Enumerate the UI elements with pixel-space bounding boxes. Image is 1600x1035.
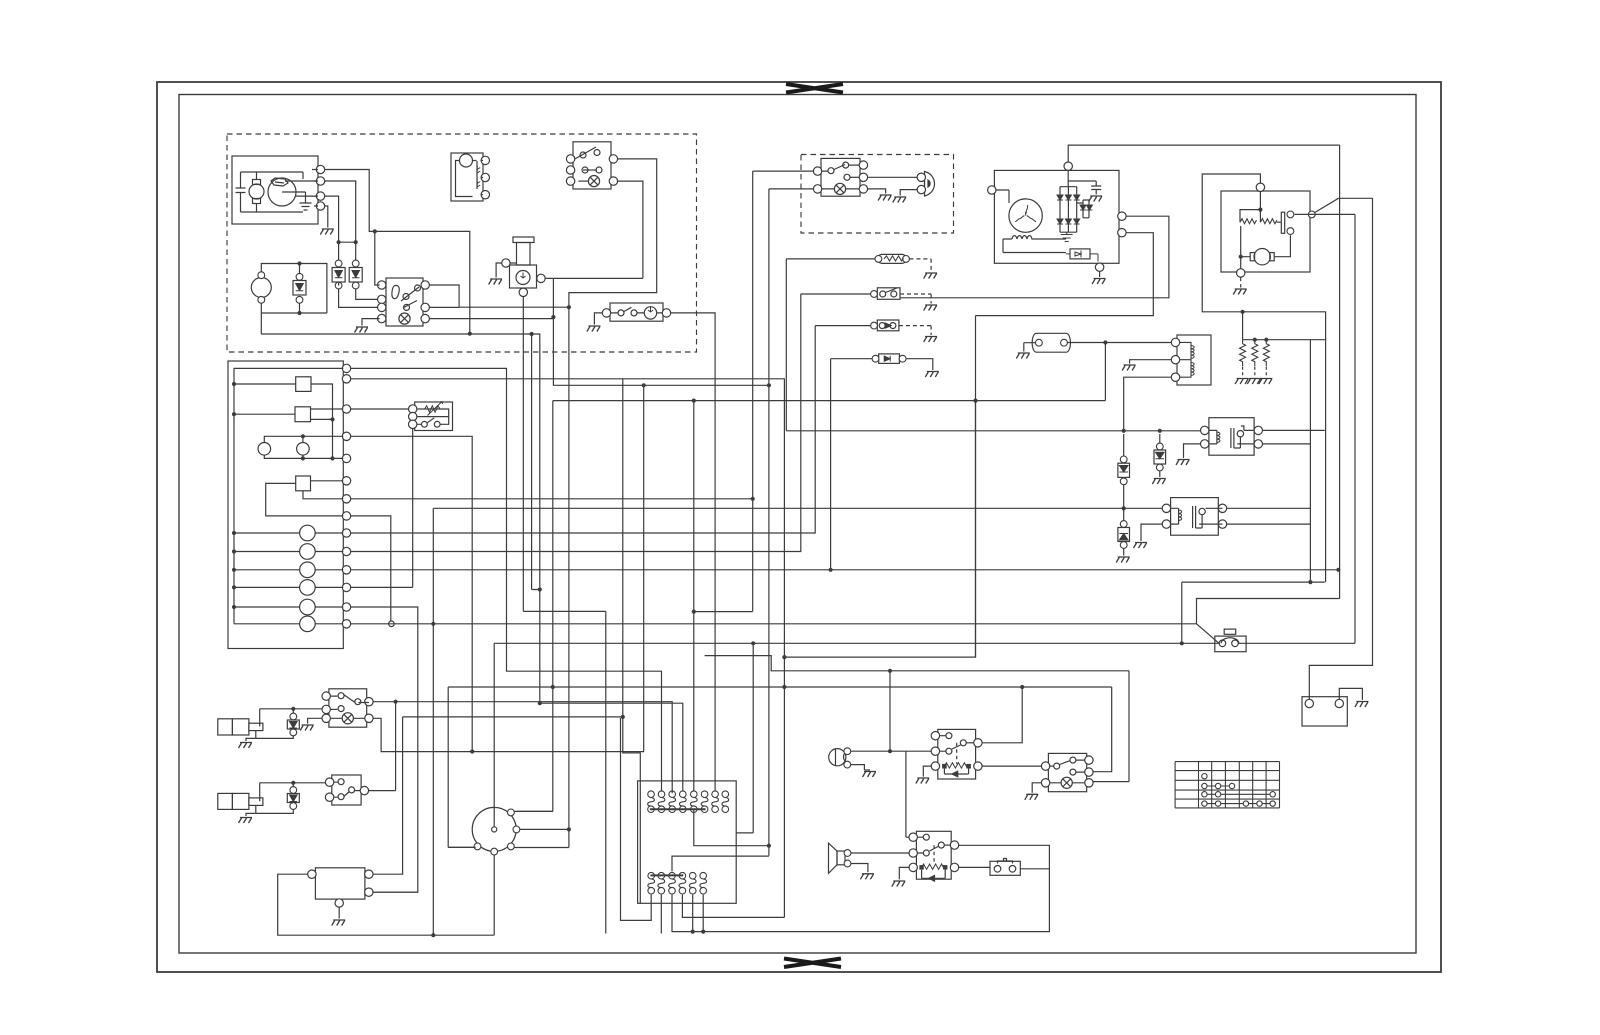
distributor SW wire bbox=[448, 846, 475, 848]
horn bbox=[829, 749, 846, 766]
row1 bottom drop from coil5 bbox=[694, 809, 769, 846]
wire D1 to switch lower terminal bbox=[339, 289, 380, 307]
wire D2 to switch mid terminal bbox=[356, 289, 380, 299]
wire cluster t409 to flasher bbox=[351, 408, 409, 410]
ground bbox=[924, 273, 938, 279]
transformer 2 bbox=[1171, 498, 1219, 536]
page border outer frame bbox=[157, 82, 1441, 972]
wire kill lamp to spark line bbox=[618, 181, 643, 278]
ground bbox=[924, 337, 938, 343]
wires C0 D0 loop bbox=[261, 264, 327, 335]
six indicator bulbs bbox=[300, 525, 316, 541]
wire flasher bottom down to t587 line bbox=[412, 429, 414, 588]
531.6 drop from 334 line bbox=[532, 334, 540, 590]
turn signal switch box bbox=[1048, 753, 1086, 791]
diode pack D0 bbox=[296, 273, 303, 280]
coil1 bottom loop bbox=[621, 718, 652, 920]
generator AC wire 1 bbox=[900, 216, 1169, 298]
generator AC wire 2 bbox=[976, 233, 1154, 657]
diode chain C bbox=[1120, 521, 1127, 528]
ignition resistor pack box bbox=[638, 781, 737, 903]
diode unit A bbox=[290, 713, 297, 720]
ground bbox=[924, 305, 938, 311]
400 line from corner to pickup, coil5 feed bbox=[553, 401, 1106, 792]
headlight bulb bbox=[925, 172, 935, 197]
671 line turn signal feed bbox=[705, 656, 1129, 782]
ground bbox=[860, 874, 874, 880]
ground bbox=[916, 778, 930, 784]
lower row top bar bbox=[651, 874, 684, 876]
battery positive feed bbox=[1309, 198, 1372, 699]
ground bbox=[1092, 279, 1106, 285]
page border inner frame bbox=[179, 95, 1416, 954]
top alignment bowtie bbox=[786, 84, 843, 93]
686.9 long line bbox=[448, 687, 1111, 847]
wire lampbox feed left-top from headlamp power vertical bbox=[753, 170, 814, 172]
wire alternator t2 bbox=[325, 181, 356, 263]
ground bbox=[925, 372, 939, 378]
wire cluster t436 down to horn line bbox=[351, 436, 473, 751]
alarm relay box bbox=[916, 831, 951, 879]
lamp square 2 bbox=[295, 407, 311, 422]
relay diode loop bbox=[944, 768, 968, 774]
battery bbox=[1302, 697, 1347, 726]
ground bbox=[587, 326, 601, 332]
wire bridge t2-t3 bbox=[339, 241, 356, 243]
distributor NE wire bbox=[514, 810, 553, 812]
375 line bbox=[623, 379, 641, 904]
wire kill right-top bbox=[569, 159, 657, 812]
lamp square 3 bbox=[296, 476, 311, 491]
starter relay assembly bbox=[1221, 191, 1310, 272]
CDI right-mid wire bbox=[373, 891, 418, 893]
generator box bbox=[994, 170, 1119, 263]
ground bbox=[1176, 460, 1190, 466]
transformer 1 bbox=[1209, 418, 1254, 456]
ground bbox=[332, 920, 346, 926]
wire HS lamp right to 553.6 bbox=[429, 318, 553, 320]
resistor pack coils row1 (8 coils) bbox=[648, 791, 729, 813]
twin bulbs bbox=[258, 443, 271, 456]
diode box in generator bbox=[1070, 249, 1090, 259]
flasher relay box bbox=[415, 402, 453, 431]
coil3 bottom loop long right bbox=[672, 845, 1049, 931]
coil4 bottom loop bbox=[682, 895, 784, 918]
coil bottom terminal wire bbox=[1124, 377, 1172, 431]
lamp square 1 bbox=[296, 377, 311, 392]
ground bbox=[1122, 365, 1136, 371]
row1 coil bar bbox=[650, 808, 706, 810]
alternator terminals bbox=[316, 165, 324, 173]
wire cluster t515 loop to bullet bbox=[351, 516, 391, 624]
dashed enclosure meter lamps area bbox=[801, 155, 954, 234]
716.9 line from 403.3 bbox=[403, 716, 623, 718]
lower row coil3 top riser bbox=[672, 856, 769, 871]
433 vertical from 508 line to 935 line bbox=[432, 508, 434, 935]
capacitor C bbox=[236, 172, 246, 212]
starter motor bbox=[1254, 249, 1270, 265]
brush bbox=[271, 178, 288, 186]
643.3 main ignition line distributor to key switch bbox=[494, 643, 1218, 827]
508 line from 433 corner to regulator left-top bbox=[433, 507, 1166, 509]
ground inside alternator box bbox=[300, 192, 312, 210]
tail diode unit bbox=[879, 354, 900, 364]
ground bbox=[300, 725, 314, 731]
coil5 coil6 bottoms bbox=[693, 895, 704, 932]
horn relay box bbox=[938, 729, 976, 779]
wire alternator t1 bbox=[325, 170, 470, 334]
generator right terminals bbox=[1118, 212, 1126, 220]
wire 334 line to vertical 539.8 bbox=[261, 334, 540, 703]
wire cluster t607 to CDI bbox=[351, 607, 418, 892]
diode chain A bbox=[1120, 456, 1127, 463]
diode unit B bbox=[290, 787, 297, 794]
rotor bbox=[268, 178, 296, 206]
768.9 vertical lampbox feed bbox=[768, 189, 770, 856]
wire HS lamp left to ground bbox=[362, 319, 380, 326]
580 line bbox=[1182, 582, 1325, 643]
coil2 bottom loop bbox=[660, 895, 662, 934]
ground bbox=[489, 279, 503, 285]
fuel level unit box bbox=[451, 153, 483, 201]
headlight switch lamp symbol bbox=[399, 313, 410, 324]
pilot resistor circle C0 bbox=[251, 278, 271, 298]
brake switch bbox=[877, 288, 900, 300]
top bus and capacitor bbox=[1068, 171, 1096, 187]
wire HS right-top bbox=[429, 285, 569, 307]
wire cluster t623 to 433 vertical bbox=[351, 623, 1197, 625]
field coil bbox=[1003, 239, 1066, 253]
diode pack D2 bbox=[352, 260, 359, 267]
relay output up to 687 line bbox=[982, 687, 1022, 743]
fuse pill bbox=[878, 254, 907, 263]
wire cluster t378 to 385-line bbox=[351, 379, 785, 918]
transformer2 left-bottom bbox=[1141, 524, 1162, 541]
transformer1 left-bottom ground bbox=[1184, 444, 1201, 458]
wire lampbox right-bottom to ground bbox=[868, 189, 886, 194]
CDI right-top wire up bbox=[373, 717, 403, 874]
relay coil ground bbox=[923, 766, 931, 777]
instrument cluster box bbox=[228, 361, 343, 649]
brake diode bbox=[877, 320, 899, 331]
ground bbox=[1089, 196, 1103, 202]
fuse block table bbox=[1175, 762, 1279, 808]
wire headlight low terminal to ground bbox=[900, 190, 917, 196]
coil4 feed line bbox=[540, 703, 683, 791]
internal bus wires bbox=[241, 172, 304, 212]
ground bbox=[239, 818, 253, 824]
diode B bbox=[1156, 443, 1163, 450]
coil mid terminal ground bbox=[1130, 360, 1172, 364]
cluster terminals bbox=[342, 364, 350, 372]
alarm relay top-left feed bbox=[906, 751, 909, 837]
wire alternator t3 bbox=[325, 196, 339, 263]
rotor leads bbox=[282, 172, 318, 196]
ground bbox=[1355, 702, 1369, 708]
ground bbox=[1152, 479, 1166, 485]
ground bbox=[892, 881, 906, 887]
pilot lamp box bbox=[610, 303, 663, 321]
657.1 line ignition pulse to coil6 bbox=[784, 401, 975, 657]
passing switch box bbox=[332, 775, 361, 805]
battery negative to ground bbox=[1339, 688, 1362, 700]
ground bbox=[878, 195, 892, 201]
rectifier bbox=[1060, 187, 1077, 233]
643.7 vertical (through crossing area down to horn line) bbox=[643, 385, 645, 751]
relay coil output to switch bbox=[982, 765, 1041, 767]
generator internal ground bbox=[1061, 232, 1073, 241]
bottom alignment bowtie bbox=[784, 959, 841, 968]
430.8 line from fuse vertical to transformer1 bbox=[786, 259, 1201, 431]
distributor S wire down to 935 line bbox=[278, 855, 495, 935]
wire HS top-left up to t1 line bbox=[375, 231, 380, 285]
wire cluster t587 to flasher leg bbox=[351, 586, 413, 588]
passing switch output bbox=[369, 790, 396, 792]
alarm relay coil ground bbox=[899, 867, 909, 879]
generator bottom terminal bbox=[1095, 263, 1103, 271]
wire cluster t569 long to right bbox=[351, 569, 1339, 571]
headlight switch box bbox=[386, 278, 423, 326]
wire cluster t498 to headlamp feed vertical bbox=[351, 498, 753, 500]
wire cluster t533 to brake diode1 bbox=[351, 326, 816, 533]
horn drop bbox=[889, 671, 891, 751]
wire lampbox feed left-bottom bbox=[769, 188, 814, 190]
dashed enclosure headlamp/handlebar area bbox=[227, 134, 697, 352]
ground bbox=[355, 327, 369, 333]
headlight unit B (lower) bbox=[218, 793, 233, 809]
stator bbox=[1009, 199, 1042, 232]
relay coil bbox=[944, 763, 969, 768]
headlight A wires bbox=[246, 709, 325, 741]
ground bbox=[1016, 353, 1030, 359]
ground bbox=[1116, 557, 1130, 563]
ground bbox=[1235, 379, 1249, 385]
dimmer output to 671 line bbox=[373, 702, 672, 794]
starter dynamo M bbox=[253, 180, 261, 185]
dimmer lamp wire to horn line bbox=[373, 718, 644, 751]
ground bbox=[320, 229, 334, 235]
400 line vertical to distributor NE bbox=[517, 401, 553, 812]
transformer2 right wires bbox=[1227, 508, 1311, 524]
wire lampbox to headlight bbox=[868, 176, 918, 178]
spark unit bottom terminal bbox=[519, 288, 527, 296]
distributor bbox=[472, 807, 516, 851]
resistor trio bbox=[1243, 339, 1326, 341]
ground bbox=[863, 772, 877, 778]
alarm button box bbox=[990, 861, 1020, 875]
alternator/magneto box bbox=[232, 156, 318, 224]
cluster left bus bbox=[234, 368, 343, 623]
distributor E and SE wires bbox=[520, 828, 569, 830]
transformer1 right wires bbox=[1263, 430, 1325, 444]
dimmer switch box bbox=[329, 689, 367, 727]
wire cluster t368 to coil2 top bbox=[351, 368, 662, 791]
meter lamp box in small dashed area bbox=[821, 158, 860, 196]
pickup coil bbox=[1032, 333, 1070, 352]
kill switch box bbox=[573, 142, 611, 189]
switch internals bbox=[392, 285, 399, 298]
horn wires bbox=[851, 750, 936, 752]
CDI unit box bbox=[315, 868, 365, 899]
ground bbox=[1233, 289, 1247, 295]
ground bbox=[1134, 543, 1148, 549]
spark plug test unit bbox=[513, 237, 534, 243]
ignition key switch bbox=[1215, 636, 1246, 652]
speaker (alarm) bbox=[829, 843, 838, 873]
wire spark vertical to 385 line bbox=[553, 278, 769, 385]
ground bbox=[1025, 794, 1039, 800]
diode pack D1 bbox=[335, 260, 342, 267]
turn switch lamp ground bbox=[1032, 783, 1041, 793]
wire cluster t551 to brake switch bbox=[351, 294, 801, 552]
resistor pack coils row2 (6 coils) bbox=[648, 872, 707, 894]
ground bbox=[893, 197, 907, 203]
ignition coil box bbox=[1177, 335, 1211, 385]
headlight unit A (left) bbox=[218, 719, 233, 735]
wire alternator t4 to ground bbox=[325, 206, 328, 228]
ground bbox=[239, 743, 253, 749]
headlamp power vertical 752.7 bbox=[752, 171, 754, 611]
wire diode2 vertical bbox=[830, 359, 832, 570]
relay switch blade bbox=[1308, 211, 1315, 218]
